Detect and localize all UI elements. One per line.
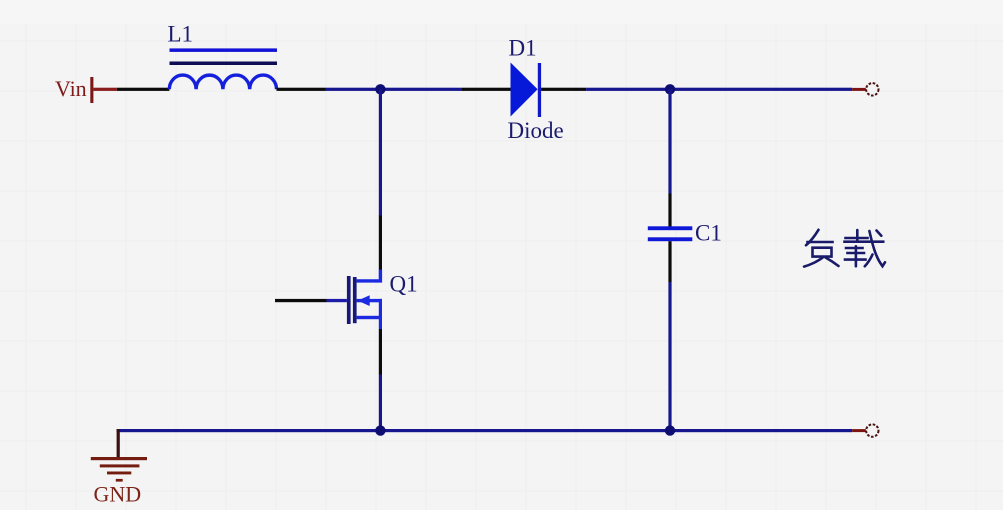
svg-text:L1: L1 [168, 22, 194, 47]
wire red to top terminal [852, 88, 866, 91]
transistor Q1 gate bar [347, 276, 351, 324]
node junction top at C1 branch [665, 84, 675, 94]
terminal top right [866, 83, 878, 95]
wire black after diode [541, 88, 586, 91]
terminal bottom right [866, 424, 878, 436]
wire navy top right [586, 88, 852, 91]
node junction bottom at Q1 branch [375, 425, 385, 435]
wire black drain branch lower [379, 216, 382, 270]
port Vin tick [90, 77, 93, 103]
node junction top at Q1 branch [375, 84, 385, 94]
wire navy C1 to bottom rail [668, 282, 671, 431]
wire navy C1 branch upper [668, 89, 671, 193]
transistor Q1 drain lead [357, 270, 381, 281]
wire gate lead navy [327, 299, 347, 302]
wire black below source [379, 329, 382, 375]
node junction bottom at C1 branch [665, 425, 675, 435]
transistor Q1 body stub with arrow [357, 299, 382, 302]
wire navy drain branch upper [379, 89, 382, 215]
svg-text:C1: C1 [695, 221, 722, 246]
svg-text:Vin: Vin [55, 76, 87, 101]
capacitor C1 plate bottom [648, 237, 693, 241]
wire red from Vin [93, 88, 117, 91]
wire black to L1 [117, 88, 169, 91]
svg-text:GND: GND [94, 482, 142, 507]
svg-text:D1: D1 [509, 36, 537, 61]
ground bar 3 [107, 472, 131, 475]
wire navy bottom rail [117, 429, 853, 432]
transistor Q1 channel bar [353, 277, 357, 323]
diode D1 cathode bar [538, 63, 541, 117]
wire black after L1 [277, 88, 326, 91]
transistor Q1 source lead [379, 299, 382, 329]
wire black to diode anode [462, 88, 511, 91]
wire black below C1 [668, 241, 671, 282]
wire ground drop [117, 429, 120, 458]
inductor L1 core bar bottom [170, 62, 278, 66]
transistor Q1 arrow [358, 295, 370, 306]
wire black above C1 [668, 194, 671, 227]
capacitor C1 plate top [648, 226, 693, 230]
ground bar 4 [116, 479, 123, 482]
wire red to bottom terminal [852, 429, 866, 432]
svg-text:Q1: Q1 [390, 272, 418, 297]
diode D1 triangle [511, 63, 538, 117]
inductor L1 core bar top [170, 48, 278, 52]
ground bar 2 [100, 464, 140, 467]
wire gate black [275, 299, 327, 302]
load label 负载 [804, 230, 885, 267]
wire navy top middle [326, 88, 463, 91]
ground bar 1 [91, 457, 147, 460]
svg-text:Diode: Diode [508, 118, 564, 143]
wire navy to bottom rail [379, 375, 382, 431]
inductor L1 coil [169, 75, 276, 89]
transistor Q1 source stub [357, 316, 382, 319]
